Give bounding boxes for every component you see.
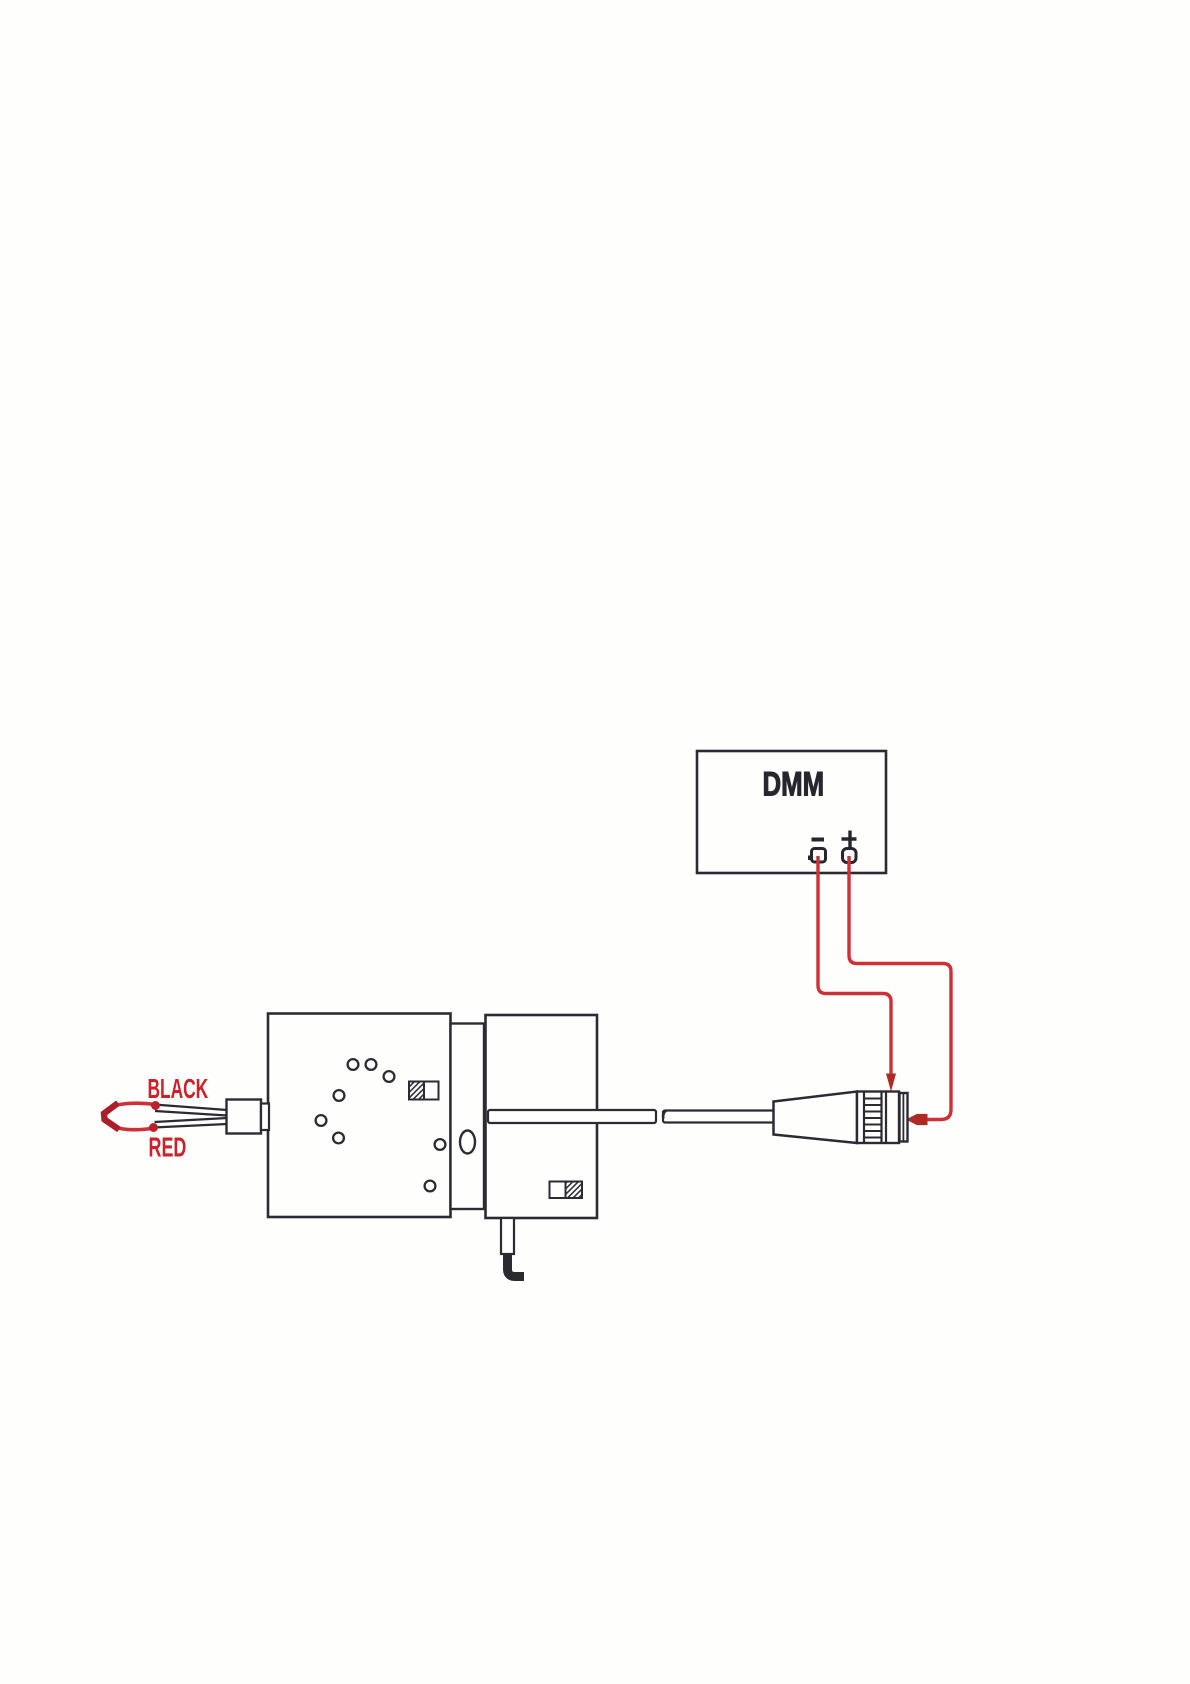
svg-text:DMM: DMM [763, 766, 825, 803]
BNC strain relief taper [774, 1092, 858, 1144]
lead connector housing [227, 1100, 270, 1134]
black hook wire [508, 1254, 525, 1277]
DMM label [763, 766, 825, 803]
BNC ribbed barrel [857, 1092, 899, 1144]
flange hole [460, 1131, 475, 1154]
module holes [316, 1059, 446, 1191]
cable break mark [663, 1111, 666, 1119]
terminal minus [808, 849, 826, 863]
solder joint top [151, 1101, 160, 1110]
hatched label right box [550, 1182, 583, 1199]
svg-text:RED: RED [149, 1131, 187, 1162]
hatched vent left box [409, 1082, 439, 1100]
svg-text:BLACK: BLACK [148, 1073, 209, 1104]
shorting loop red [105, 1103, 156, 1129]
loop arrow chevron [104, 1103, 119, 1130]
black lead wires [154, 1105, 228, 1128]
solder joint bottom [149, 1123, 158, 1132]
sensor module right box [486, 1015, 598, 1218]
minus sign [812, 838, 825, 842]
sensor module left box [268, 1014, 451, 1218]
signal cable segment 1 [488, 1110, 656, 1123]
BNC end cap [900, 1093, 908, 1142]
mounting tab [501, 1218, 514, 1254]
DMM box U1 [697, 751, 886, 873]
middle flange [451, 1024, 485, 1210]
signal cable segment 2 [663, 1111, 775, 1123]
wire plus to BNC [849, 856, 951, 1125]
plus sign [842, 831, 857, 849]
terminal plus [843, 849, 857, 863]
wire minus to BNC [818, 856, 896, 1092]
